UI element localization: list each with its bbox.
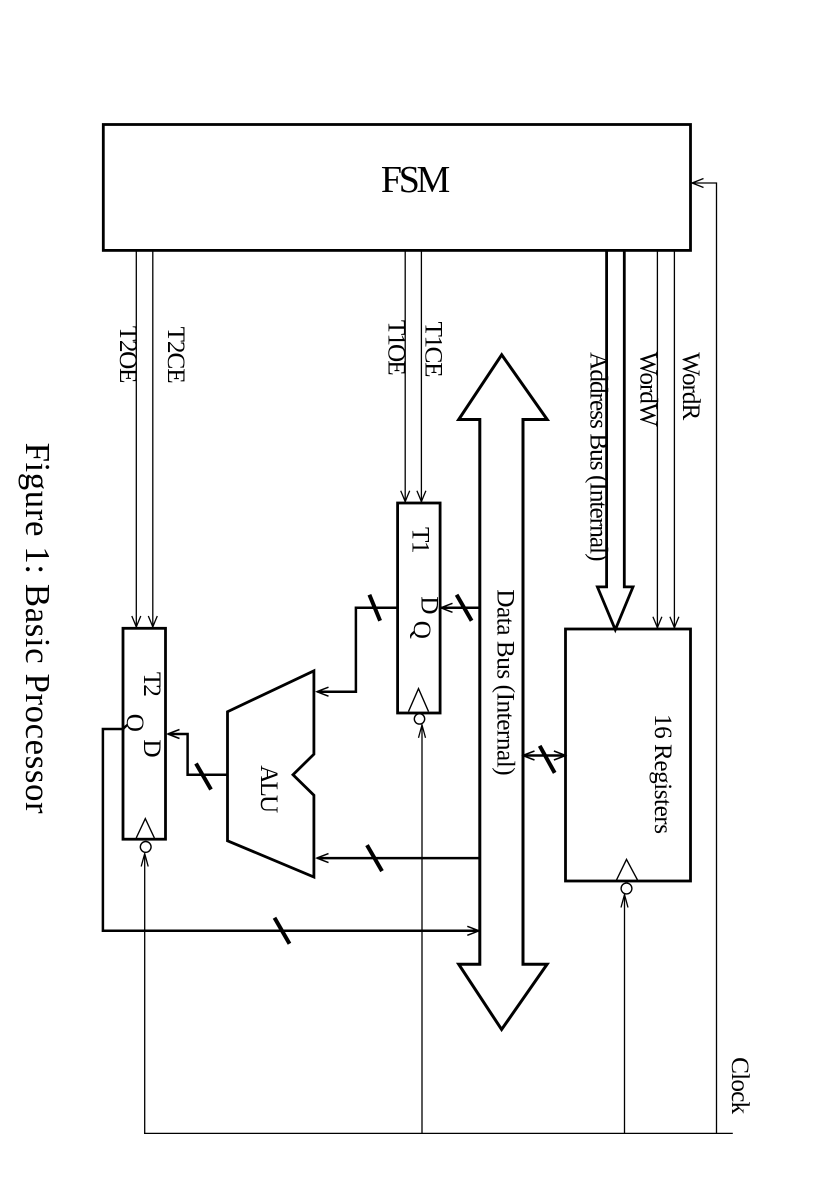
svg-text:T2OE: T2OE — [114, 326, 141, 384]
svg-text:Q: Q — [121, 714, 148, 732]
T2 clock triangle — [136, 819, 154, 838]
svg-text:Address Bus (Internal): Address Bus (Internal) — [585, 352, 612, 561]
registers box 16 Registers — [566, 629, 691, 881]
svg-text:WordR: WordR — [677, 352, 704, 420]
ALU U2 — [228, 671, 314, 877]
register T1 box — [398, 503, 443, 713]
svg-text:Clock: Clock — [726, 1057, 753, 1114]
svg-text:T1OE: T1OE — [383, 320, 410, 376]
wire clock feeder to 16 Registers — [621, 895, 628, 1134]
bus Address Bus (Internal) — [597, 250, 633, 629]
svg-text:Data Bus (Internal): Data Bus (Internal) — [491, 589, 518, 775]
svg-text:D: D — [416, 596, 443, 614]
svg-text:Figure 1: Basic Processor: Figure 1: Basic Processor — [18, 443, 57, 814]
wire T2 Q to data bus — [103, 729, 479, 944]
svg-text:16 Registers: 16 Registers — [649, 714, 676, 834]
wire data bus to 16 Registers (bidirectional) — [523, 746, 565, 773]
svg-text:T1CE: T1CE — [419, 322, 446, 378]
registers clock triangle — [617, 859, 638, 880]
wire clock feeder to T2 — [141, 854, 148, 1134]
wire WordW — [653, 250, 662, 628]
svg-text:D: D — [138, 739, 165, 757]
wire T1CE — [417, 250, 426, 502]
wire WordR — [670, 250, 679, 628]
svg-text:T2CE: T2CE — [162, 327, 189, 384]
wire T2OE — [132, 250, 141, 627]
wire Clock main loop — [144, 179, 733, 1134]
svg-text:T1: T1 — [407, 527, 434, 554]
svg-text:WordW: WordW — [635, 352, 662, 427]
register T2 box — [121, 628, 166, 839]
svg-text:FSM: FSM — [381, 159, 451, 201]
wire clock feeder to T1 — [419, 725, 426, 1134]
wire ALU output to T2 D — [168, 730, 228, 790]
svg-text:Q: Q — [408, 621, 435, 639]
svg-text:ALU: ALU — [255, 765, 282, 813]
wire T1OE — [401, 250, 410, 502]
wire data bus to ALU input 2 — [317, 845, 480, 871]
bus Data Bus (Internal) — [459, 355, 548, 1030]
registers clock bubble — [621, 883, 632, 894]
wire T2CE — [148, 250, 157, 627]
svg-text:T2: T2 — [138, 672, 165, 697]
T1 clock bubble — [414, 714, 424, 724]
wire T1 Q to ALU input 1 — [317, 595, 398, 696]
wire T1 D input from data bus — [441, 595, 480, 621]
T2 clock bubble — [140, 842, 151, 853]
FSM box U1 — [103, 125, 690, 251]
T1 clock triangle — [409, 689, 429, 712]
